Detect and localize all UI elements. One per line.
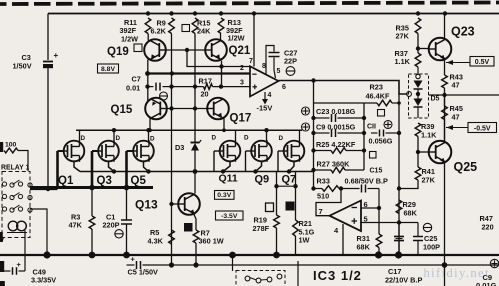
resistor R45: [442, 106, 448, 120]
svg-text:Q21: Q21: [229, 45, 251, 57]
resistor R33: [314, 186, 342, 192]
resistor R41: [415, 167, 421, 180]
resistor R39: [415, 123, 421, 137]
transistor Q17: [207, 98, 229, 120]
resistor R27: [314, 167, 365, 173]
polarity mark C27: [286, 67, 295, 76]
label IC3 pin6: [364, 200, 368, 209]
label D5: [431, 96, 440, 103]
marker square R7: [184, 223, 193, 232]
svg-text:220P: 220P: [103, 221, 120, 230]
polarity mark C11: [384, 121, 392, 129]
svg-text:Q25: Q25: [454, 160, 478, 174]
svg-text:278F: 278F: [253, 224, 270, 233]
transistor Q21: [205, 39, 227, 61]
label D3: [175, 143, 184, 152]
label C23: [316, 107, 356, 116]
transistor Q13: [178, 193, 200, 215]
junction Q13 base tap: [169, 202, 173, 206]
svg-text:46.4KF: 46.4KF: [366, 92, 390, 101]
junction D5 mid: [416, 92, 420, 96]
wire C15 to pin6: [378, 189, 380, 209]
junction bus connector: [229, 252, 236, 259]
svg-text:R33: R33: [317, 177, 330, 186]
capacitor C23: [332, 114, 336, 122]
junction R33 right: [339, 186, 343, 190]
mosfet Q5: [133, 140, 154, 162]
label U1 pin2: [240, 65, 244, 72]
label -v: [0, 237, 4, 244]
wire C49 line: [0, 270, 25, 272]
label C15: [370, 168, 383, 175]
svg-text:68K: 68K: [404, 209, 418, 218]
svg-text:C5 1/50V: C5 1/50V: [128, 268, 159, 277]
label U1 pin8: [262, 63, 266, 70]
label R19: [253, 216, 270, 234]
label IC3: [313, 268, 362, 283]
wire mid rail: [429, 94, 499, 96]
op-amp U1: [250, 66, 279, 96]
mosfet Q1: [64, 140, 85, 162]
polarity mark ladder A: [302, 107, 310, 115]
label C25: [423, 234, 440, 252]
label C5 plus: [131, 255, 136, 264]
junction pin2 Q19 lead: [145, 71, 150, 76]
marker square C15: [370, 152, 377, 159]
label IC3 pin5: [364, 215, 368, 224]
wire gate bus thick: [30, 186, 153, 189]
junction R13 top: [219, 11, 223, 15]
mosfet Q11: [220, 140, 241, 162]
arrow Q23 emitter: [440, 55, 445, 61]
wire Q23 base: [418, 48, 429, 50]
label IC3 pin4: [334, 226, 339, 235]
junction R23 corner: [397, 101, 401, 105]
label R37: [395, 49, 411, 66]
wire Q25 collector: [444, 95, 446, 143]
test point square TP1: [182, 25, 190, 32]
label R45: [450, 104, 463, 122]
svg-text:2: 2: [240, 65, 244, 72]
wire R9 lead down: [171, 34, 173, 266]
svg-text:Q5: Q5: [131, 175, 147, 187]
label Q3 drain D: [116, 135, 121, 142]
wire -0.5V: [446, 125, 468, 130]
wire IC3 pin5: [361, 222, 418, 224]
wire Q13 emitter: [194, 213, 197, 230]
label Q5 drain D: [150, 136, 155, 143]
wire C11 row: [371, 132, 399, 134]
wire IC3 pin6: [361, 207, 379, 209]
wire Q9 drain stub: [266, 130, 268, 141]
junction drain Q15 lead: [148, 128, 152, 132]
label Q5: [131, 175, 147, 187]
svg-text:R27 360K: R27 360K: [317, 160, 351, 169]
marker square R23: [378, 110, 385, 117]
junction Q23 collector top: [443, 11, 447, 15]
svg-text:4.3K: 4.3K: [148, 237, 164, 246]
junction lower C17: [442, 262, 448, 268]
resistor R17: [172, 84, 251, 90]
diode D3 zener: [191, 140, 202, 151]
svg-text:RELAY 1: RELAY 1: [1, 165, 30, 172]
wire C25 leads: [417, 223, 419, 256]
svg-text:Q1: Q1: [58, 175, 74, 187]
label Q7: [282, 174, 297, 186]
junction base line crossing A: [169, 106, 173, 110]
wire Q15 emitter down: [149, 119, 151, 131]
label Q17: [230, 113, 252, 125]
wire R19 column: [276, 172, 278, 256]
label U1 pin3: [240, 79, 244, 86]
svg-text:360 1W: 360 1W: [199, 237, 224, 246]
wire C13 leads: [398, 223, 400, 256]
label R11: [120, 18, 139, 44]
label C15 value: [345, 177, 389, 186]
label C49 plus: [17, 260, 22, 269]
junction drain Q9: [264, 128, 268, 132]
wire stub x298: [297, 261, 299, 286]
label Q19: [107, 46, 129, 58]
label R17: [199, 77, 212, 99]
wire Q19 emitter to Q15: [147, 60, 149, 103]
junction R35 top: [416, 11, 420, 15]
wire R43 bottom: [444, 88, 446, 106]
svg-text:0.01G: 0.01G: [476, 281, 497, 286]
label U1 pin4: [268, 92, 272, 99]
svg-text:0.5V: 0.5V: [475, 59, 490, 66]
wire Q3 source bend: [109, 162, 115, 172]
junction base branch: [219, 64, 223, 68]
junction R17 left tap: [193, 84, 197, 88]
svg-text:7: 7: [249, 58, 253, 65]
junction bus R19: [273, 252, 280, 259]
svg-text:R17: R17: [199, 77, 212, 86]
label 100: [5, 142, 17, 149]
wire Q1 drain stub: [79, 130, 81, 141]
resistor R19: [274, 215, 280, 228]
wire +supply bus: [48, 13, 499, 15]
svg-text:D3: D3: [175, 143, 184, 152]
wire Q7 drain stub: [299, 130, 301, 141]
svg-text:Q23: Q23: [451, 25, 475, 39]
junction rail Q3: [112, 169, 116, 173]
junction base line crossing B: [193, 106, 197, 110]
junction bus C13: [395, 251, 402, 258]
resistor R11: [145, 18, 151, 34]
capacitor C11: [380, 130, 384, 137]
svg-text:+: +: [131, 255, 136, 264]
svg-text:392F: 392F: [120, 26, 137, 35]
svg-text:47K: 47K: [69, 221, 83, 230]
label R13: [226, 18, 245, 43]
mosfet Q9: [251, 140, 272, 162]
resistor R3: [89, 216, 95, 229]
transistor Q15: [145, 98, 167, 120]
scan edge mark 1: [0, 142, 3, 152]
wire R35-R37: [417, 34, 419, 54]
capacitor C25: [413, 237, 423, 241]
resistor R relay 100: [4, 148, 18, 153]
svg-text:47: 47: [452, 113, 460, 122]
wire Q11 drain stub: [235, 130, 237, 141]
label C7: [126, 75, 141, 93]
svg-text:0.3V: 0.3V: [217, 192, 231, 199]
wire C15 row: [341, 188, 379, 190]
svg-text:27K: 27K: [396, 32, 410, 41]
wire U1 pin2 thick: [148, 72, 251, 74]
capacitor C5: [137, 261, 141, 269]
wire Q5 source bend: [144, 162, 149, 172]
relay dashed box: [2, 172, 30, 238]
svg-text:1.1K: 1.1K: [395, 57, 411, 66]
junction bus C1: [123, 252, 130, 259]
label R3: [69, 213, 83, 230]
wire connector drop: [232, 255, 234, 271]
junction bridge left: [274, 184, 278, 188]
junction op-amp supply: [252, 11, 256, 15]
label R9: [151, 19, 167, 36]
label R27: [317, 160, 351, 169]
junction pin6 node: [377, 206, 381, 210]
polarity mark C7: [160, 92, 168, 100]
svg-text:0.01: 0.01: [126, 84, 140, 93]
wire R19-R21 bridge: [277, 185, 296, 187]
junction rail Q7: [287, 169, 291, 173]
label Q3: [97, 175, 112, 187]
pin circle D5 top: [416, 74, 420, 78]
wire IC3 feedback: [316, 189, 341, 216]
wire C23 row: [314, 117, 365, 119]
svg-text:D: D: [244, 135, 249, 142]
svg-text:0.68/50V B.P: 0.68/50V B.P: [345, 177, 389, 186]
junction pin2 crossing: [170, 71, 174, 75]
label R25: [316, 140, 356, 149]
svg-text:220: 220: [482, 223, 494, 232]
svg-text:0.056G: 0.056G: [369, 137, 393, 146]
svg-text:1.1K: 1.1K: [421, 131, 437, 140]
wire R3 leads: [91, 188, 93, 256]
junction drain Q5: [146, 128, 150, 132]
label R39: [421, 122, 437, 140]
svg-text:22/10V B.P: 22/10V B.P: [385, 276, 422, 285]
junction R17 pin3 tap: [219, 84, 223, 88]
label R23: [366, 83, 390, 101]
svg-text:Q11: Q11: [219, 173, 238, 185]
svg-text:Q13: Q13: [135, 198, 158, 212]
label U1 pin6: [282, 84, 286, 91]
svg-text:3.3/35V: 3.3/35V: [31, 276, 56, 285]
svg-text:100P: 100P: [423, 243, 440, 252]
wire Q23 collector: [444, 14, 446, 40]
svg-text:C7: C7: [132, 75, 141, 84]
relay coil: [7, 221, 27, 232]
connector dashed box: [236, 271, 285, 286]
arrow Q13 emitter: [190, 210, 195, 215]
pin circle D5 left: [407, 92, 412, 97]
polarity mark bottom right: [490, 259, 498, 267]
svg-text:4: 4: [268, 92, 272, 99]
junction rail Q5: [146, 169, 150, 173]
wire C1 leads: [126, 188, 128, 256]
resistor R35: [415, 18, 421, 34]
svg-text:D: D: [116, 135, 121, 142]
label Q11: [219, 173, 238, 185]
label 0.056G: [369, 137, 393, 146]
svg-text:1/2W: 1/2W: [121, 35, 138, 44]
label C3 plus: [54, 51, 59, 60]
svg-text:IC3 1/2: IC3 1/2: [313, 268, 362, 283]
junction C7 left: [145, 84, 149, 88]
scan edge mark 3: [0, 261, 4, 272]
wire relay feed: [18, 151, 28, 172]
svg-text:+: +: [54, 51, 59, 60]
label Q21: [229, 45, 251, 57]
scan edge mark 4: [0, 281, 5, 286]
wire output to D5: [407, 93, 410, 95]
junction R15 top: [193, 11, 197, 15]
capacitor C1: [121, 220, 132, 224]
label Q15: [111, 104, 133, 116]
junction Q23 base: [416, 46, 420, 50]
label R33: [317, 177, 330, 201]
resistor R23: [377, 100, 399, 106]
transistor Q23: [429, 38, 452, 61]
wire IC3 pin4: [342, 224, 344, 255]
wire Q3 gate: [92, 150, 98, 152]
scan edge mark 2: [0, 232, 3, 242]
wire R7 bottom: [195, 243, 197, 265]
junction bus R31: [375, 251, 382, 258]
wire C27 to pin5: [274, 58, 276, 79]
resistor R31: [376, 234, 382, 248]
label C5: [128, 268, 159, 277]
wire C9 row: [314, 132, 365, 134]
capacitor C49: [13, 267, 17, 275]
svg-text:6.2K: 6.2K: [151, 27, 167, 36]
wire Q7 gate drop: [278, 151, 284, 172]
svg-text:100: 100: [5, 142, 17, 149]
wire C7: [148, 86, 172, 88]
wire drain bus: [76, 129, 302, 131]
capacitor C7: [156, 83, 160, 91]
junction bus relay: [43, 251, 50, 258]
wire relay contact to C49 node: [30, 209, 47, 255]
junction bus R3: [89, 252, 96, 259]
wire ground bus: [0, 254, 499, 256]
junction ladder C9: [311, 131, 315, 135]
svg-text:-15V: -15V: [257, 104, 273, 113]
svg-text:R25 4.22KF: R25 4.22KF: [316, 140, 356, 149]
svg-text:1/2W: 1/2W: [228, 34, 245, 43]
svg-text:Q15: Q15: [111, 104, 133, 116]
wire Q13 base: [172, 203, 179, 205]
relay contact row 3: [2, 205, 32, 212]
label R5: [148, 228, 164, 246]
svg-text:68K: 68K: [357, 243, 371, 252]
label C9 corner: [476, 273, 497, 286]
wire Q3 drain stub: [113, 130, 115, 141]
junction R9 top: [169, 11, 173, 15]
op-amp IC3: [330, 201, 362, 232]
svg-text:C15: C15: [370, 168, 383, 175]
label C1: [103, 213, 120, 230]
label C3: [13, 53, 32, 71]
connector pins: [245, 274, 282, 283]
svg-text:1W: 1W: [299, 236, 310, 245]
label Q13: [135, 198, 158, 212]
junction gate bus R3: [89, 185, 95, 191]
capacitor C9: [332, 129, 336, 137]
label IC3 pin7: [319, 207, 323, 216]
wire C3 to relay: [47, 69, 49, 190]
junction output feedback tap: [311, 78, 315, 82]
junction Q25 base: [416, 150, 420, 154]
label R35: [396, 24, 410, 41]
resistor R29: [396, 200, 402, 214]
wire R23 right rail: [398, 94, 400, 255]
wire R11 to Q19 collector: [147, 34, 149, 41]
junction drain Q3: [112, 128, 116, 132]
polarity mark C1: [115, 230, 123, 238]
wire Q9 source bend: [256, 162, 262, 172]
wire Q7 source bend: [289, 162, 294, 172]
resistor R25: [314, 148, 365, 154]
junction right rail C9: [362, 131, 366, 135]
svg-text:D: D: [81, 135, 86, 142]
label R31: [357, 234, 371, 252]
box 8.8V: [98, 64, 119, 73]
transistor Q25: [429, 141, 452, 164]
wire R21 column: [295, 172, 297, 256]
wire Q3 gate drop: [91, 151, 94, 188]
resistor R15: [192, 18, 198, 34]
wire Q21 emitter down: [221, 61, 223, 87]
mosfet Q7: [284, 140, 305, 162]
wire R15 lead down: [194, 34, 196, 194]
junction right rail C23: [362, 116, 366, 120]
wire U1 output: [279, 81, 407, 95]
wire ladder right rail: [363, 103, 365, 170]
relay contact row 2: [2, 193, 32, 200]
mosfet Q3: [98, 140, 119, 162]
junction rail Q9: [253, 169, 257, 173]
label R43: [450, 73, 463, 90]
svg-text:22P: 22P: [284, 57, 297, 66]
wire Q19 base to Q21 base: [166, 49, 205, 51]
resistor R43: [442, 75, 448, 88]
resistor R5: [169, 230, 175, 244]
svg-text:D: D: [212, 135, 217, 142]
svg-text:24K: 24K: [197, 27, 211, 36]
svg-text:1/50V: 1/50V: [13, 62, 32, 71]
svg-text:D: D: [279, 135, 284, 142]
wire Q1 source bend: [74, 162, 80, 172]
wire Q17 emitter down: [223, 119, 225, 131]
wire U1 pin4 arrow: [262, 92, 268, 105]
dashed page border top: [0, 3, 499, 5]
label Q1: [58, 175, 74, 187]
svg-text:R23: R23: [370, 83, 383, 92]
box -0.5V: [468, 123, 497, 133]
svg-text:+: +: [17, 260, 22, 269]
junction ladder R27: [311, 168, 315, 172]
label R21: [299, 219, 315, 245]
arrow Q25 emitter: [440, 158, 445, 164]
D5 dashed box: [409, 74, 429, 118]
wire relay output: [30, 188, 58, 191]
junction R29 top: [397, 186, 401, 190]
